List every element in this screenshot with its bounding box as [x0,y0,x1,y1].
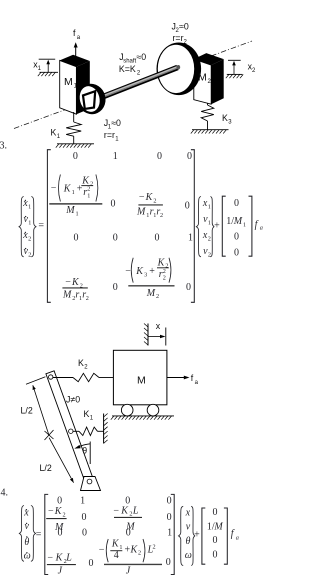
svg-text:0: 0 [155,232,160,243]
svg-text:1: 1 [72,189,75,196]
rod (pendulum) [46,371,94,483]
svg-text:L/2: L/2 [40,463,52,473]
svg-text:2: 2 [208,235,211,242]
svg-text:a: a [236,534,239,541]
mass M1 box [60,55,90,114]
midpoint tick [45,430,54,440]
svg-text:2: 2 [63,512,66,519]
svg-text:K: K [71,277,80,288]
force fa arrow (diagram 2) [167,373,199,386]
svg-text:K: K [145,192,154,203]
svg-text:J: J [126,565,131,576]
eq3 LHS state vector braces [19,197,24,257]
svg-text:0: 0 [167,512,172,523]
svg-text:0: 0 [213,549,218,560]
svg-text:θ: θ [186,536,191,547]
svg-text:0: 0 [113,282,118,293]
eq4 matrix left bracket [45,494,48,574]
svg-text:0: 0 [57,496,62,507]
svg-text:0: 0 [58,528,63,539]
svg-text:1: 1 [167,528,172,539]
svg-text:0: 0 [186,282,191,293]
svg-text:K: K [157,257,166,268]
svg-text:M: M [136,207,146,218]
svg-text:x: x [185,507,191,518]
svg-text:L: L [132,506,139,517]
svg-text:1: 1 [188,232,193,243]
svg-text:0: 0 [213,535,218,546]
eq3 matrix left bracket [47,150,50,303]
svg-text:2: 2 [153,543,156,550]
svg-text:1: 1 [119,544,122,551]
svg-text:2: 2 [138,550,141,557]
eq4 matrix right bracket [171,494,174,574]
svg-text:ω: ω [185,550,192,561]
svg-text:−: − [99,544,105,555]
svg-text:K: K [135,266,144,277]
svg-text:0: 0 [126,528,131,539]
svg-text:≈0: ≈0 [136,52,146,62]
theta angle marker [74,442,90,465]
svg-text:M: M [198,72,207,84]
spring K1 (diagram 2) [73,427,104,435]
svg-text:2: 2 [208,251,211,258]
svg-text:−: − [139,192,145,203]
shaft K=K2 [97,67,178,99]
svg-text:2: 2 [156,293,159,300]
ground under K1 [56,144,94,148]
svg-text:K: K [120,506,129,517]
centerline (dash-dot axis) [14,41,252,129]
svg-text:2: 2 [160,212,163,219]
mass M2 box [194,53,224,104]
svg-text:0: 0 [185,200,190,211]
svg-text:1: 1 [113,151,118,162]
dimension L/2 lower [40,438,74,483]
svg-text:−: − [65,277,71,288]
svg-text:L/2: L/2 [21,406,33,416]
svg-text:≈0: ≈0 [179,21,189,31]
svg-text:0: 0 [187,151,192,162]
spring K3 [201,103,214,130]
svg-text:v: v [25,521,30,532]
eq4 LHS state vector braces [19,506,24,562]
mass M (cart) [113,350,166,405]
svg-text:K=K: K=K [119,64,136,74]
svg-text:M: M [65,205,75,216]
svg-text:0: 0 [73,151,78,162]
svg-text:2: 2 [28,251,31,258]
svg-text:K: K [51,128,57,138]
svg-text:0: 0 [111,199,116,210]
svg-text:0: 0 [213,507,218,518]
svg-text:M: M [146,288,156,299]
svg-text:1: 1 [208,203,211,210]
svg-text:1: 1 [28,203,31,210]
svg-text:1: 1 [243,221,246,228]
ground under M [111,416,174,420]
svg-text:2: 2 [86,295,89,302]
spring K1 (diagram 1) [66,112,81,144]
svg-text:0: 0 [234,232,239,243]
svg-text:−: − [47,553,53,564]
svg-text:0: 0 [234,198,239,209]
svg-text:L: L [65,553,72,564]
svg-text:2: 2 [90,181,93,188]
svg-text:2: 2 [28,235,31,242]
shaft end cap [176,65,180,70]
svg-text:−: − [48,506,54,517]
svg-text:2: 2 [163,275,166,282]
svg-text:M: M [137,374,146,386]
force fa arrow (diagram 1) [73,28,81,56]
svg-text:+: + [214,221,220,232]
svg-text:v: v [186,521,191,532]
svg-text:+: + [194,529,200,540]
eq4 input vector brackets [202,508,205,564]
disk J2 [157,43,202,96]
svg-text:0: 0 [89,558,94,569]
svg-text:0: 0 [82,512,87,523]
svg-text:2: 2 [87,186,90,193]
svg-text:1: 1 [208,219,211,226]
svg-text:1: 1 [87,192,90,199]
svg-text:=: = [38,220,44,231]
svg-text:≈0: ≈0 [111,118,121,128]
svg-text:M: M [64,76,73,88]
svg-text:−: − [51,183,57,194]
svg-text:K: K [222,113,228,123]
svg-text:0: 0 [82,528,87,539]
svg-text:1: 1 [76,210,79,217]
svg-text:2: 2 [153,197,156,204]
svg-text:0: 0 [167,496,172,507]
svg-text:ω: ω [24,550,31,561]
x1 measurement [33,59,58,76]
svg-text:K: K [63,184,72,195]
svg-text:4: 4 [114,550,119,561]
svg-text:K: K [54,506,63,517]
svg-text:J: J [58,565,63,576]
svg-text:M: M [213,521,223,532]
pulley J1 [74,81,109,118]
svg-text:3.: 3. [0,140,7,151]
svg-text:θ: θ [24,537,29,548]
wall for K1 [104,414,108,444]
dimension L/2 upper [21,377,50,436]
eq3 input vector brackets [222,196,225,256]
svg-text:0: 0 [157,151,162,162]
svg-text:0: 0 [113,232,118,243]
svg-text:r=r: r=r [104,130,115,140]
ground under K3 [191,130,229,134]
spring K2 (diagram 2) [53,373,114,381]
svg-text:J≠0: J≠0 [66,395,80,405]
svg-text:1: 1 [28,219,31,226]
svg-text:+: + [149,266,155,277]
svg-text:r=r: r=r [173,33,184,43]
svg-text:K: K [55,553,64,564]
svg-text:=: = [36,530,42,541]
svg-text:−: − [125,266,131,277]
svg-text:−: − [113,506,119,517]
svg-text:K: K [84,409,90,419]
svg-text:x: x [23,507,29,518]
svg-text:0: 0 [166,557,171,568]
eq3 matrix right bracket [191,150,194,303]
x2 measurement [226,60,256,78]
svg-text:θ: θ [82,445,87,455]
pivot support [81,477,101,491]
svg-text:4.: 4. [1,487,9,498]
svg-text:K: K [78,358,84,368]
svg-text:a: a [260,225,263,232]
svg-text:3: 3 [144,272,147,279]
svg-text:1: 1 [80,496,85,507]
svg-text:x: x [156,321,161,331]
svg-text:2: 2 [163,268,166,275]
eq4 RHS state vector [179,506,184,565]
wheels [121,404,133,416]
x measurement (diagram 2) [144,321,166,346]
svg-text:M: M [233,216,243,227]
svg-text:0: 0 [74,232,79,243]
eq3 RHS state vector [196,197,201,257]
svg-text:0: 0 [234,247,239,258]
svg-text:M: M [62,290,72,301]
